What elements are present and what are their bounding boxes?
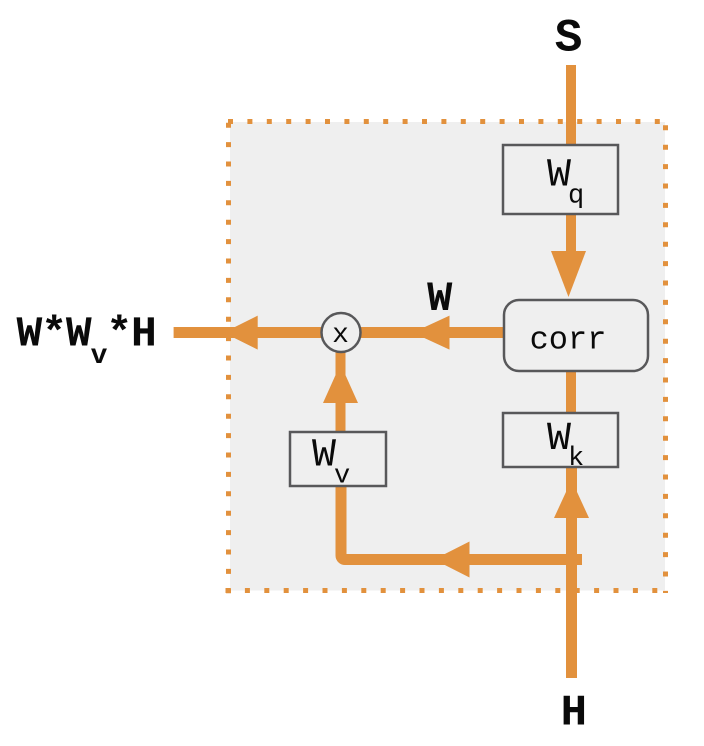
svg-text:H: H (561, 689, 587, 739)
svg-text:S: S (555, 13, 583, 65)
svg-text:W: W (427, 275, 453, 323)
svg-text:x: x (332, 320, 349, 351)
svg-text:corr: corr (530, 321, 607, 358)
svg-text:W*Wv*H: W*Wv*H (17, 310, 156, 373)
